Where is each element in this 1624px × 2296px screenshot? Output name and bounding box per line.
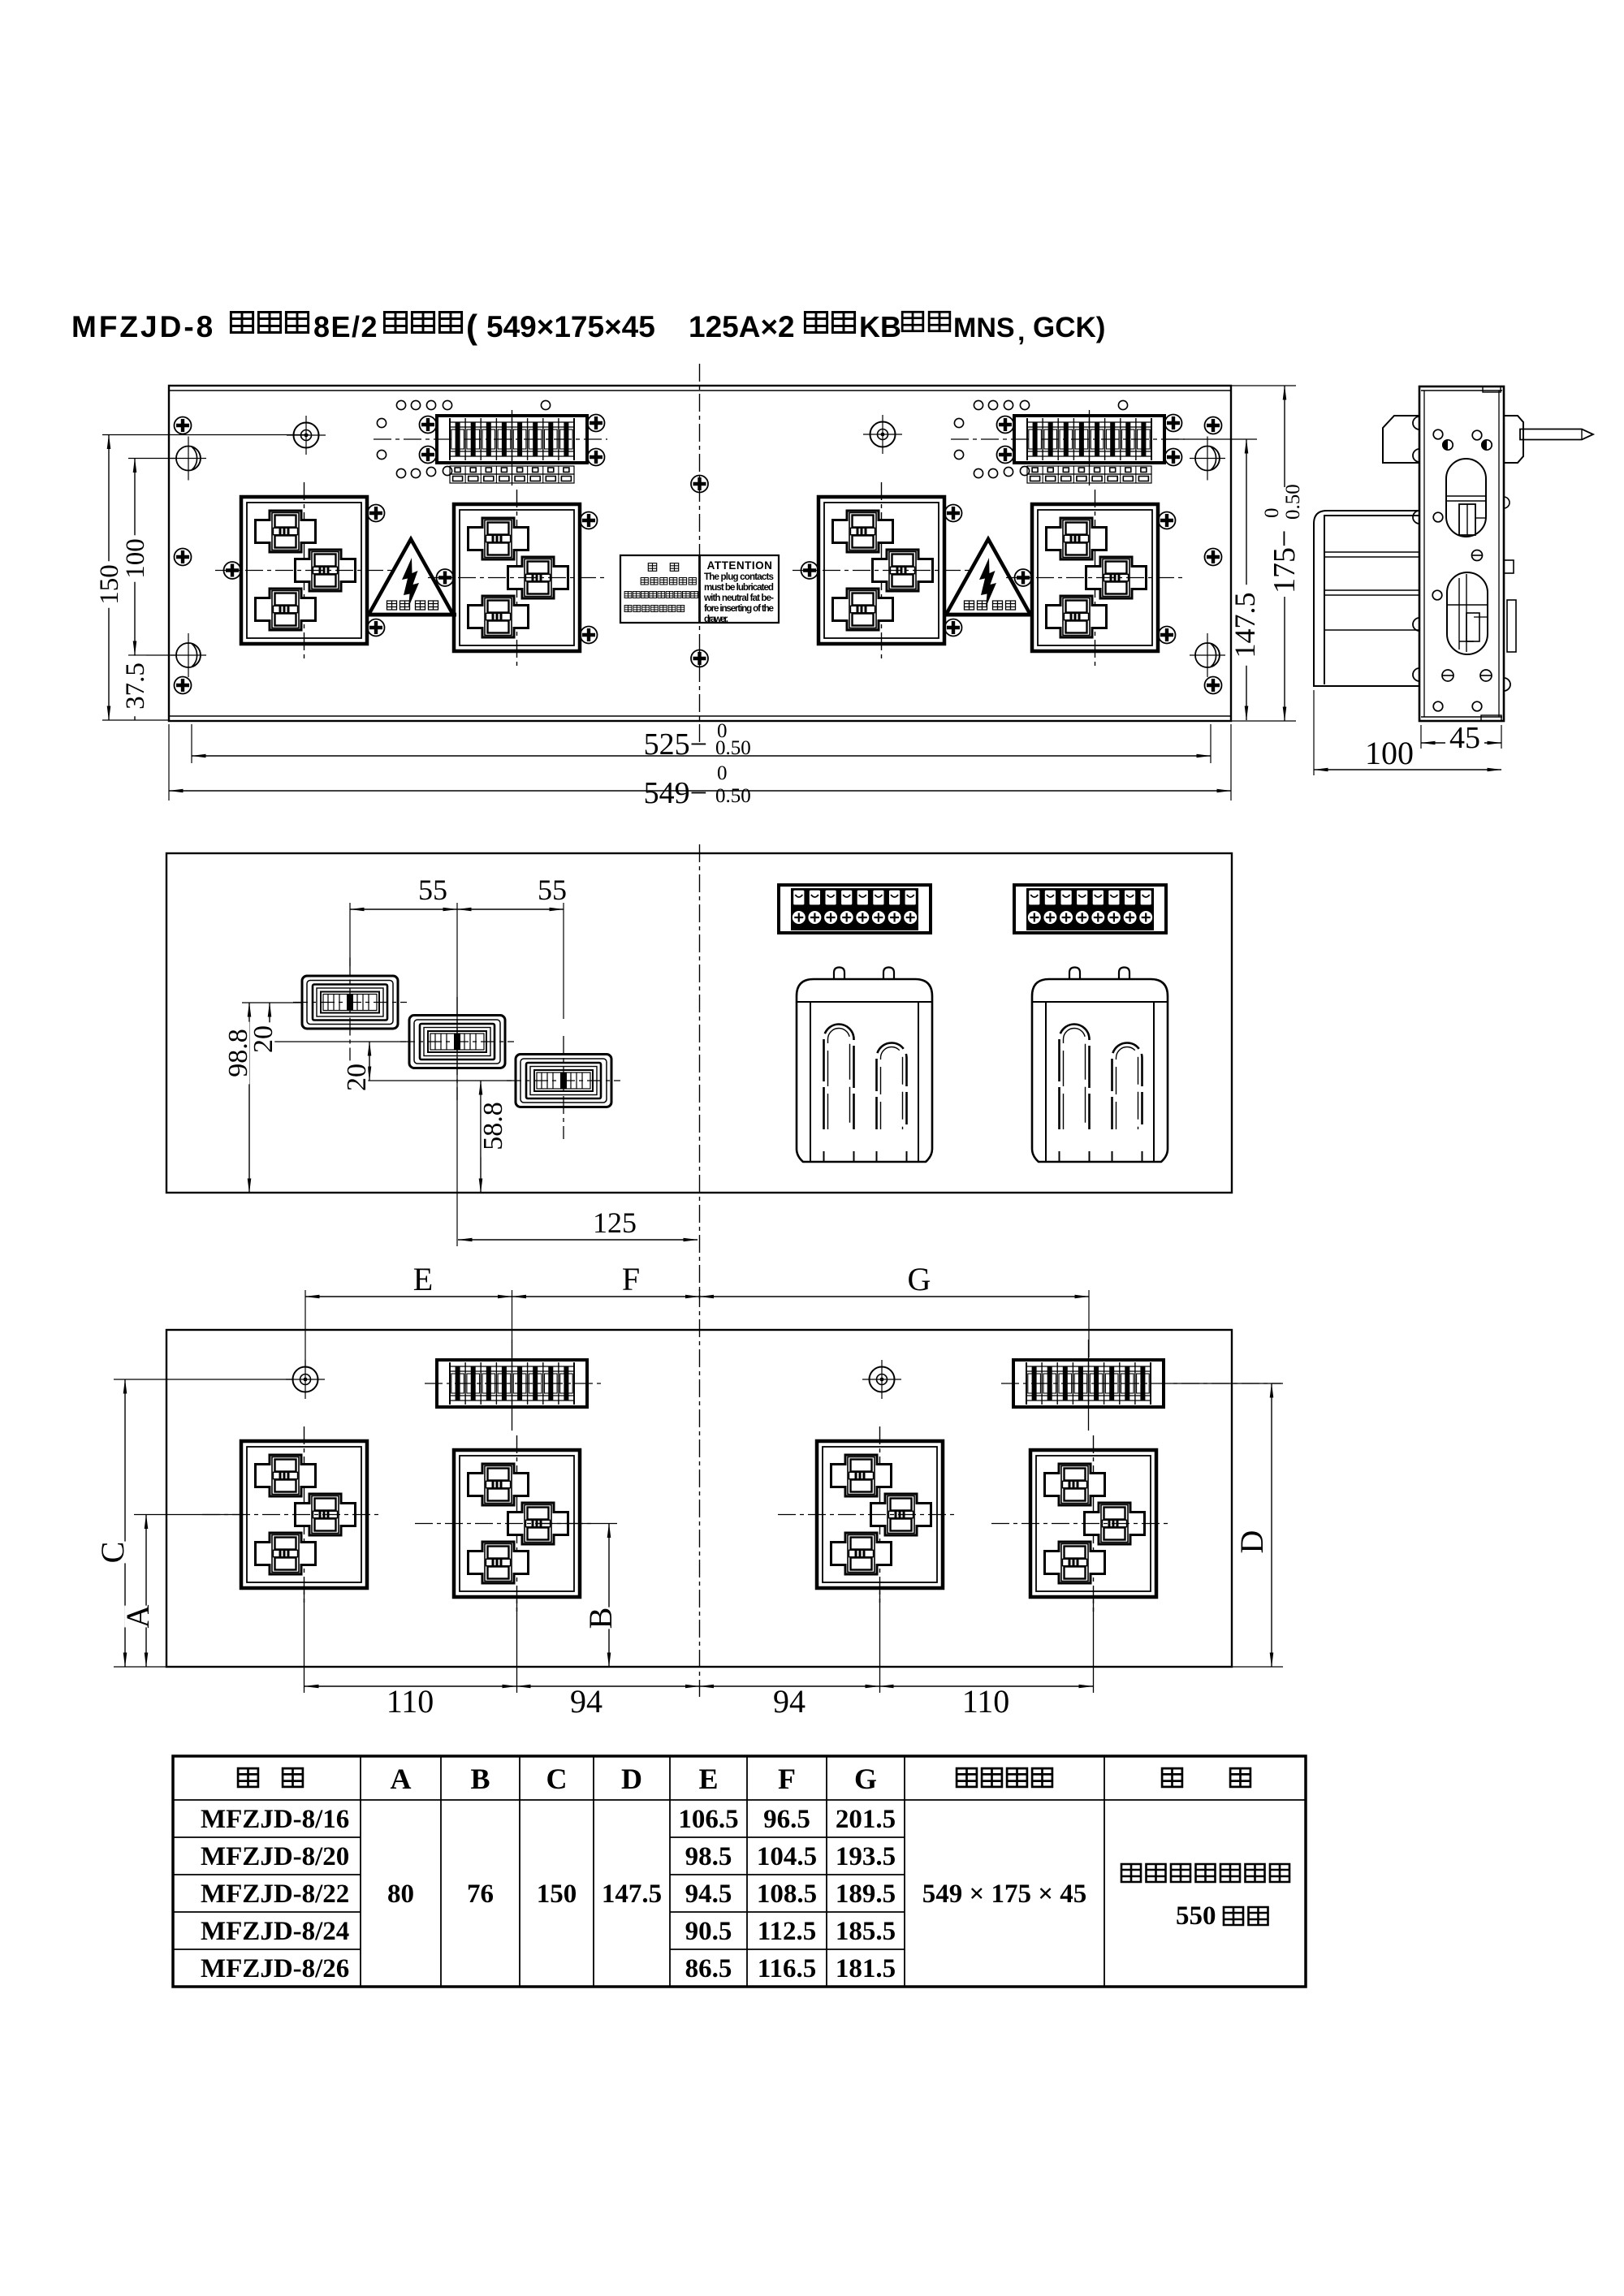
svg-text:94: 94 — [773, 1683, 806, 1720]
view3 frame — [166, 1330, 1232, 1667]
svg-text:drawer.: drawer. — [704, 614, 728, 624]
svg-text:B: B — [582, 1608, 619, 1629]
svg-text:112.5: 112.5 — [758, 1917, 816, 1946]
view3 dimension D — [1169, 1383, 1283, 1667]
svg-text:MFZJD-8/24: MFZJD-8/24 — [201, 1917, 349, 1946]
svg-text:must be lubricated: must be lubricated — [704, 582, 774, 593]
view2 frame — [166, 853, 1232, 1193]
svg-text:(: ( — [466, 308, 477, 346]
svg-text:MFZJD-8/16: MFZJD-8/16 — [201, 1805, 349, 1834]
view2 connector face 2 — [400, 997, 514, 1100]
svg-text:C: C — [546, 1763, 568, 1795]
svg-text:0.50: 0.50 — [715, 737, 751, 759]
svg-text:KB: KB — [859, 310, 901, 343]
svg-text:550: 550 — [1176, 1901, 1216, 1931]
svg-text:A: A — [119, 1604, 156, 1628]
dimension 147.5 right — [1164, 439, 1261, 720]
title text MFZJD-8 — [71, 308, 1105, 347]
side view dimension 45 — [1421, 721, 1501, 755]
svg-text:110: 110 — [387, 1683, 434, 1720]
view3 dimensions 110 94 94 110 — [304, 1683, 1093, 1720]
svg-text:8E/2: 8E/2 — [313, 310, 378, 343]
svg-text:100: 100 — [1365, 735, 1414, 771]
view3 dimension E F G — [305, 1261, 1089, 1368]
side view lower slot — [1447, 572, 1488, 654]
view3 connector block L1 — [202, 1426, 381, 1693]
view2 dimension 55 55 — [350, 874, 567, 1246]
view2 connector face 1 — [293, 958, 407, 1061]
svg-text:150: 150 — [95, 564, 124, 605]
svg-text:D: D — [621, 1763, 642, 1795]
view3 dimension A — [114, 1515, 244, 1668]
view1 center screws — [691, 476, 708, 667]
view1 terminal strip right — [951, 400, 1185, 486]
view2 dimension 98.8 — [223, 1003, 302, 1193]
svg-text:125A×2: 125A×2 — [689, 310, 795, 343]
view2 connector face 3 — [507, 1036, 620, 1139]
view2 terminal strip left — [779, 885, 931, 933]
attention label box — [620, 555, 779, 624]
svg-text:193.5: 193.5 — [836, 1842, 896, 1871]
dimension 37.5 left — [102, 655, 177, 720]
svg-text:106.5: 106.5 — [678, 1805, 738, 1834]
svg-text:201.5: 201.5 — [836, 1805, 896, 1834]
view3 terminal strip right — [1001, 1340, 1281, 1431]
svg-text:‚: ‚ — [1017, 316, 1025, 347]
table merged values — [387, 1880, 1086, 1909]
view1 connector block B1 — [215, 482, 394, 658]
svg-text:ATTENTION: ATTENTION — [707, 559, 773, 572]
svg-text:20: 20 — [342, 1064, 372, 1091]
view1 ring studs — [287, 415, 902, 455]
svg-text:MNS: MNS — [953, 313, 1015, 343]
dimension 150 left — [95, 435, 309, 721]
svg-text:116.5: 116.5 — [758, 1954, 816, 1983]
svg-text:D: D — [1233, 1530, 1270, 1554]
svg-text:189.5: 189.5 — [836, 1880, 896, 1909]
dimension 175-0.50 right — [1231, 386, 1304, 721]
svg-text:MFZJD-8/26: MFZJD-8/26 — [201, 1954, 349, 1983]
view1 right cam holes — [1190, 437, 1225, 678]
svg-text:0: 0 — [717, 762, 728, 784]
svg-text:80: 80 — [387, 1880, 414, 1909]
view2 dimension 20 lower — [342, 1042, 512, 1094]
view3 dimension B — [536, 1524, 619, 1668]
view2 dimension 125 — [458, 1206, 698, 1240]
view2 dimension 20 upper — [248, 1003, 406, 1056]
svg-text:20: 20 — [248, 1025, 279, 1053]
view1 terminal strip left — [374, 400, 607, 486]
svg-text:94: 94 — [570, 1683, 603, 1720]
svg-text:B: B — [470, 1763, 490, 1795]
view2 centerline — [699, 844, 701, 1299]
svg-text:G: G — [854, 1763, 877, 1795]
side view right small fittings — [1504, 497, 1516, 691]
view3 dimension C — [94, 1379, 294, 1667]
svg-text:100: 100 — [121, 538, 150, 579]
view1 left mounting screws — [175, 417, 192, 694]
svg-text:549 × 175 × 45: 549 × 175 × 45 — [922, 1880, 1087, 1909]
svg-text:55: 55 — [538, 874, 567, 906]
svg-text:96.5: 96.5 — [763, 1805, 810, 1834]
spec table grid — [173, 1756, 1306, 1987]
svg-text:A: A — [391, 1763, 412, 1795]
svg-text:E: E — [413, 1261, 433, 1297]
svg-text:98.5: 98.5 — [685, 1842, 732, 1871]
svg-text:94.5: 94.5 — [685, 1880, 732, 1909]
svg-text:108.5: 108.5 — [757, 1880, 817, 1909]
svg-text:MFZJD-8: MFZJD-8 — [71, 310, 215, 343]
warning triangle right — [943, 539, 1034, 617]
svg-text:181.5: 181.5 — [836, 1954, 896, 1983]
svg-text:104.5: 104.5 — [757, 1842, 817, 1871]
view1 right mounting screws — [1205, 417, 1222, 694]
svg-text:with neutral fat be-: with neutral fat be- — [703, 593, 774, 603]
svg-text:F: F — [778, 1763, 796, 1795]
view1 vertical centerline — [699, 364, 701, 745]
svg-text:C: C — [94, 1542, 131, 1564]
side view left edge bumps — [1413, 416, 1419, 681]
svg-text:45: 45 — [1449, 721, 1480, 755]
side view drawer body — [1314, 511, 1419, 686]
svg-text:MFZJD-8/20: MFZJD-8/20 — [201, 1842, 349, 1871]
side view plate holes — [1432, 429, 1492, 711]
view3 ring studs — [286, 1360, 901, 1399]
svg-text:58.8: 58.8 — [478, 1102, 508, 1150]
view2 dimension 58.8 — [478, 1081, 508, 1193]
svg-text:MFZJD-8/22: MFZJD-8/22 — [201, 1880, 349, 1909]
side view right bracket and pin — [1504, 416, 1593, 463]
svg-text:0: 0 — [1261, 508, 1283, 519]
warning triangle left — [365, 539, 456, 617]
svg-text:G: G — [908, 1261, 931, 1297]
svg-text:fore inserting of the: fore inserting of the — [704, 603, 775, 614]
svg-text:55: 55 — [418, 874, 447, 906]
svg-text:525−: 525− — [644, 727, 707, 762]
view3 connector block L2 — [415, 1435, 594, 1693]
view3 terminal strip left — [425, 1340, 603, 1431]
svg-text:The plug contacts: The plug contacts — [704, 572, 774, 582]
table header row — [238, 1763, 1250, 1795]
svg-text:E: E — [698, 1763, 718, 1795]
dimension 525 bottom — [192, 720, 1211, 763]
dimension 549 bottom — [169, 724, 1231, 810]
side view left bracket — [1383, 416, 1419, 463]
svg-text:125: 125 — [593, 1206, 637, 1239]
svg-text:86.5: 86.5 — [685, 1954, 732, 1983]
svg-text:147.5: 147.5 — [602, 1880, 662, 1909]
side view dimension 100 — [1314, 690, 1501, 775]
view1 front panel frame — [169, 386, 1231, 721]
view2 cover right — [1032, 968, 1168, 1163]
table model rows — [201, 1805, 896, 1983]
svg-text:F: F — [622, 1261, 640, 1297]
svg-text:0.50: 0.50 — [715, 785, 751, 807]
svg-text:549×175×45: 549×175×45 — [486, 310, 655, 343]
svg-text:549−: 549− — [644, 776, 707, 810]
svg-text:90.5: 90.5 — [685, 1917, 732, 1946]
svg-text:GCK): GCK) — [1033, 312, 1105, 343]
view3 connector block R2 — [991, 1435, 1170, 1693]
svg-text:76: 76 — [467, 1880, 494, 1909]
dimension 100 left — [121, 459, 177, 656]
svg-text:110: 110 — [962, 1683, 1010, 1720]
view1 connector block B2 — [428, 490, 607, 666]
svg-text:185.5: 185.5 — [836, 1917, 896, 1946]
table remark cell — [1121, 1864, 1289, 1931]
side view plate — [1419, 386, 1504, 721]
svg-text:150: 150 — [537, 1880, 577, 1909]
side view upper slot — [1446, 459, 1486, 537]
svg-text:37.5: 37.5 — [121, 662, 150, 710]
svg-text:147.5: 147.5 — [1229, 593, 1261, 658]
view2 terminal strip right — [1014, 885, 1166, 933]
view1 connector block B3 — [793, 482, 971, 658]
view1 left cam holes — [171, 437, 206, 678]
view3 connector block R1 — [778, 1426, 957, 1693]
view1 connector block B4 — [1006, 490, 1185, 666]
svg-text:0.50: 0.50 — [1282, 484, 1304, 520]
view2 cover left — [797, 968, 932, 1163]
svg-text:175−: 175− — [1268, 530, 1302, 593]
view3 centerline — [699, 1289, 701, 1697]
